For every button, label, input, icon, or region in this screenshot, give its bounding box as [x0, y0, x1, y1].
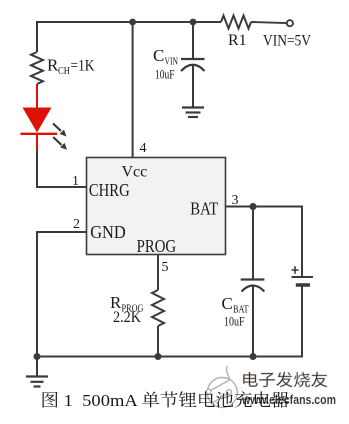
node junction RPROG/rail [155, 353, 162, 360]
LED arrow 1 [53, 124, 67, 137]
wire RPROG bottom [157, 326, 159, 357]
LED arrow 2 [53, 137, 67, 150]
svg-text:4: 4 [140, 141, 147, 156]
wire pin2 GND net [37, 231, 87, 357]
svg-text:5: 5 [162, 260, 169, 275]
capacitor CBAT [241, 280, 265, 292]
label CBAT [222, 294, 249, 316]
node junction CVIN/top rail [190, 19, 197, 26]
wire cathode to pin1 [36, 150, 87, 188]
wire bottom rail [37, 356, 302, 358]
svg-text:BAT: BAT [190, 199, 218, 219]
wire CBAT bottom [252, 286, 254, 358]
node junction pin4/top rail [129, 19, 136, 26]
resistor R1 [221, 16, 251, 29]
svg-text:=1K: =1K [71, 58, 95, 75]
wire pin5 PROG [157, 255, 159, 291]
wire top rail [37, 21, 221, 23]
ground (CVIN) [182, 108, 204, 118]
svg-text:PROG: PROG [137, 236, 177, 256]
node junction BAT/CBAT [250, 203, 257, 210]
svg-text:R1: R1 [228, 32, 247, 49]
watermark logo elecfans [206, 366, 237, 408]
svg-text:10uF: 10uF [155, 67, 175, 82]
ground (bottom-left) [26, 357, 48, 387]
svg-text:10uF: 10uF [224, 314, 245, 329]
svg-text:1: 1 [72, 174, 79, 189]
wire R1 to VIN terminal [251, 22, 287, 23]
wire left drop to RCH [36, 21, 38, 52]
LED D1 [21, 108, 58, 134]
svg-text:2.2K: 2.2K [113, 309, 141, 326]
svg-text:图 1 500mA 单节锂电池充电器: 图 1 500mA 单节锂电池充电器 [41, 391, 290, 410]
label RPROG [110, 293, 144, 315]
wire cathode (red) [36, 134, 38, 150]
wire pin3 BAT net [226, 206, 303, 208]
svg-text:电子发烧友: 电子发烧友 [241, 372, 328, 390]
wire battery bottom [301, 285, 303, 358]
svg-text:CH: CH [58, 66, 70, 77]
svg-text:C: C [153, 46, 164, 65]
battery BT1 [292, 277, 314, 285]
label + (battery positive) [292, 266, 299, 273]
capacitor CVIN [181, 59, 205, 71]
terminal VIN [287, 20, 293, 26]
svg-text:2: 2 [73, 217, 80, 232]
node junction CBAT/rail [250, 353, 257, 360]
wire CVIN top [192, 22, 194, 59]
svg-text:Vcc: Vcc [122, 164, 148, 181]
wire CBAT top [252, 207, 254, 280]
svg-text:GND: GND [90, 222, 126, 242]
wire pin4 Vcc [132, 22, 134, 158]
label RCH=1K [47, 56, 95, 78]
resistor RPROG [152, 290, 164, 326]
wire CVIN bottom [192, 65, 194, 108]
resistor RCH [31, 52, 43, 84]
svg-text:VIN=5V: VIN=5V [263, 33, 311, 50]
label CVIN [153, 46, 178, 68]
wire anode (red) [36, 84, 38, 109]
wire battery top [301, 206, 303, 278]
IC U1 battery charger body [87, 158, 226, 255]
node junction bottom-left [34, 353, 41, 360]
svg-text:C: C [222, 294, 233, 313]
svg-text:3: 3 [232, 193, 239, 208]
svg-text:CHRG: CHRG [89, 180, 130, 200]
